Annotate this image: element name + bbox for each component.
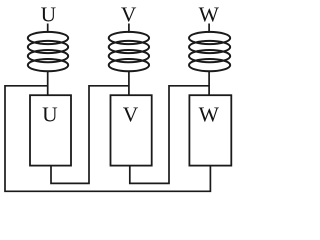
coil (winding) U	[28, 32, 68, 71]
wire: delta link from box W bottom, down, along bottom, up left side to coil U top node	[5, 86, 210, 192]
svg-text:W: W	[199, 3, 220, 27]
coil (winding) W	[189, 32, 230, 71]
wire: coil W bottom to box W top	[208, 71, 210, 96]
box (winding block) U	[30, 95, 71, 165]
svg-text:U: U	[42, 103, 58, 127]
wire: terminal U lead to coil U	[47, 24, 49, 33]
wire: coil V bottom to box V top	[128, 71, 130, 96]
wire: terminal V lead to coil V	[128, 24, 130, 33]
box (winding block) W	[189, 95, 231, 165]
wire: coil U bottom to box U top	[47, 71, 49, 96]
svg-text:V: V	[121, 3, 137, 27]
box (winding block) V	[111, 95, 152, 165]
svg-text:V: V	[123, 103, 139, 127]
wire: terminal W lead to coil W	[208, 24, 210, 33]
svg-text:U: U	[41, 3, 57, 27]
svg-text:W: W	[199, 103, 220, 127]
wire: delta link from box V bottom to coil W top node	[130, 86, 209, 184]
wire: delta link from box U bottom to coil V top node	[51, 86, 129, 184]
coil (winding) V	[109, 32, 149, 71]
